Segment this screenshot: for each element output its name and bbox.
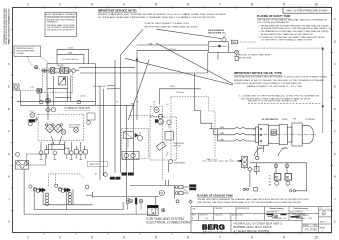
svg-text:A: A <box>253 128 255 131</box>
svg-text:ITEM REF: ITEM REF <box>215 208 223 210</box>
svg-text:F1-JT381: F1-JT381 <box>305 227 317 231</box>
svg-text:F: F <box>8 130 10 134</box>
svg-text:LF: LF <box>153 101 156 103</box>
svg-text:ANOT-T-XX A: ANOT-T-XX A <box>232 214 243 217</box>
svg-text:GXM-SPEC 1: GXM-SPEC 1 <box>296 218 306 220</box>
svg-text:2 * ELECTRICAL PUMPS: 2 * ELECTRICAL PUMPS <box>234 229 269 233</box>
svg-text:HYDRAULIC TANK UNIT: HYDRAULIC TANK UNIT <box>65 107 91 110</box>
svg-text:STEEL HARDENS ON THE OIL DISTR: STEEL HARDENS ON THE OIL DISTRIBUTOR UNI… <box>47 28 76 31</box>
svg-text:OIL LEVEL SWITCH: OIL LEVEL SWITCH <box>62 59 79 61</box>
svg-text:1. CONNECTED TO THE POSITIONED: 1. CONNECTED TO THE POSITIONED ACC LEVEL… <box>239 94 319 97</box>
svg-text:PLACING OF LEAKAGE TANK: PLACING OF LEAKAGE TANK <box>197 195 233 198</box>
svg-text:REINSTALL T. A: REINSTALL T. A <box>274 217 287 220</box>
svg-text:N/A: N/A <box>193 207 197 210</box>
svg-text:SHEET: SHEET <box>320 228 326 230</box>
svg-text:PLACING OF SAFETY TANK: PLACING OF SAFETY TANK <box>257 15 291 18</box>
svg-text:G: G <box>8 152 10 156</box>
svg-text:REV: REV <box>192 215 196 217</box>
svg-text:BN: BN <box>269 182 272 184</box>
svg-text:PUMP: PUMP <box>282 119 288 121</box>
svg-text:1: 1 <box>322 231 323 233</box>
svg-text:PUMPS MUST BE AVOIDED THE HYDR: PUMPS MUST BE AVOIDED THE HYDRAULIC SYST… <box>234 82 303 85</box>
svg-text:K: K <box>8 220 10 224</box>
svg-text:1: 1 <box>27 236 29 240</box>
svg-text:T/J: T/J <box>320 208 322 210</box>
svg-text:+ 10 BAR: + 10 BAR <box>16 52 25 55</box>
svg-text:DWG-NO X: DWG-NO X <box>215 215 225 217</box>
svg-text:DESIGNED BY: DESIGNED BY <box>266 212 278 214</box>
svg-text:4: 4 <box>123 236 125 240</box>
svg-text:LF: LF <box>116 101 119 103</box>
svg-text:MM Zone: MM Zone <box>177 92 185 94</box>
svg-text:IMPORTANT NOTICE ON OIL TYPE: IMPORTANT NOTICE ON OIL TYPE <box>234 71 282 75</box>
svg-text:J: J <box>326 221 327 223</box>
svg-text:6: 6 <box>187 3 189 7</box>
svg-text:10: 10 <box>314 3 318 7</box>
svg-text:MODIFICATION: MODIFICATION <box>237 207 250 210</box>
svg-text:LF: LF <box>154 104 157 106</box>
svg-text:86/T3: 86/T3 <box>320 221 324 223</box>
svg-text:AIR ELIMINATION: AIR ELIMINATION <box>208 29 225 32</box>
svg-text:P/TL: P/TL <box>30 87 34 89</box>
svg-text:AT A HIGHER LEVEL THAN THE OIL: AT A HIGHER LEVEL THAN THE OIL DISTRIBUT… <box>261 33 313 36</box>
svg-text:5: 5 <box>155 236 157 240</box>
svg-text:BERG: BERG <box>202 222 225 231</box>
svg-text:M: M <box>161 191 163 195</box>
svg-text:E: E <box>334 107 336 111</box>
svg-text:THE INSTALLATION SYSTEM IS FAC: THE INSTALLATION SYSTEM IS FACTORY FLUSH… <box>234 76 327 79</box>
svg-text:YE: YE <box>269 176 271 178</box>
svg-text:IMPORTANT SERVICE NOTE:: IMPORTANT SERVICE NOTE: <box>98 8 137 12</box>
svg-text:WHEN CHANGING THE OFFLINE FILT: WHEN CHANGING THE OFFLINE FILTER ELEMENT… <box>98 13 227 16</box>
svg-text:8: 8 <box>251 236 253 240</box>
svg-text:MARINE HYDRAULIC OIL WITH HIGH: MARINE HYDRAULIC OIL WITH HIGH VI, ~ VG … <box>247 85 303 88</box>
svg-text:OIL DISTRIBUTOR: OIL DISTRIBUTOR <box>262 119 279 121</box>
svg-text:IS OPEN AND REMOVAL PRESSURE C: IS OPEN AND REMOVAL PRESSURE CONTAINED B… <box>98 16 216 19</box>
svg-text:10: 10 <box>314 236 318 240</box>
svg-text:CYLINDER: CYLINDER <box>305 119 315 121</box>
svg-text:OIL LEVEL SW: OIL LEVEL SW <box>93 86 106 88</box>
svg-text:SO THE PIPE TO THE HYDRAULIC T: SO THE PIPE TO THE HYDRAULIC TANK IS LEV… <box>261 39 314 42</box>
svg-text:RUBBER SEALS IN THE SYSTEM AND: RUBBER SEALS IN THE SYSTEM AND THE DESIG… <box>234 79 324 82</box>
svg-text:D: D <box>334 85 336 89</box>
svg-text:A: A <box>334 17 336 21</box>
svg-text:3: 3 <box>91 236 93 240</box>
svg-text:STAR BLEED: STAR BLEED <box>174 162 186 165</box>
svg-text:THE AIR VENTILATED DRAINAGE TH: THE AIR VENTILATED DRAINAGE THE LEAKAGE … <box>197 198 310 201</box>
svg-text:H: H <box>334 175 336 179</box>
svg-text:WH: WH <box>269 185 273 187</box>
svg-text:Technical drawing: Technical drawing <box>294 208 309 210</box>
svg-text:THE PLACING OF THE GRAVITY TAN: THE PLACING OF THE GRAVITY TANK SHALL TA… <box>257 19 327 22</box>
svg-text:8: 8 <box>251 3 253 7</box>
svg-text:1. THE AIR BLEED AND INTERNAL: 1. THE AIR BLEED AND INTERNAL PRESSURE T… <box>259 24 329 27</box>
svg-text:4: 4 <box>123 3 125 7</box>
svg-text:MIN LEVEL OF GRAVITY TANK UNDE: MIN LEVEL OF GRAVITY TANK UNDER <box>238 54 271 57</box>
svg-text:2. THE DEAERATION SYSTEM TANK: 2. THE DEAERATION SYSTEM TANK THE GRAVIT… <box>259 30 329 33</box>
svg-text:C: C <box>334 62 336 66</box>
svg-text:MAX. SYSTEM PRESSURE 50 BAR: MAX. SYSTEM PRESSURE 50 BAR <box>287 9 328 12</box>
svg-text:C: C <box>8 62 10 66</box>
svg-text:REG N.: REG N. <box>303 215 309 217</box>
svg-text:* ABS ONLY: * ABS ONLY <box>89 163 100 166</box>
svg-text:B: B <box>334 40 336 44</box>
svg-text:IC: IC <box>275 176 279 180</box>
svg-text:C2500: C2500 <box>80 96 85 98</box>
svg-text:J: J <box>8 197 10 201</box>
svg-text:M: M <box>155 108 158 112</box>
svg-text:B: B <box>253 135 255 137</box>
svg-text:Technical drawing: Technical drawing <box>269 208 284 210</box>
svg-text:C2500: C2500 <box>170 86 175 88</box>
svg-text:F: F <box>334 130 336 134</box>
svg-text:PROPULSION: PROPULSION <box>203 231 223 233</box>
svg-text:ELECTRICAL CONNECTIONS: ELECTRICAL CONNECTIONS <box>147 221 191 225</box>
svg-text:MIN LEVEL OF OIL DISTRIBUTOR R: MIN LEVEL OF OIL DISTRIBUTOR REF LINE MA… <box>248 100 298 103</box>
svg-text:7: 7 <box>219 236 221 240</box>
svg-text:DRN-NO X: DRN-NO X <box>200 215 209 217</box>
svg-text:VOL: VOL <box>205 218 208 220</box>
svg-text:FOLLOWING REQUIREMENTS:-: FOLLOWING REQUIREMENTS:- <box>257 22 290 24</box>
svg-text:TO AVOID THE POSSIBILITY OF AI: TO AVOID THE POSSIBILITY OF AIR-LOCKS <box>144 22 189 25</box>
svg-text:GN: GN <box>269 179 272 181</box>
svg-text:THE PIPE SHALL HAVE NO HORIZON: THE PIPE SHALL HAVE NO HORIZONTAL SECTIO… <box>144 26 199 29</box>
svg-text:6: 6 <box>187 236 189 240</box>
svg-text:VALVE (OPEN), Pos: VALVE (OPEN), Pos <box>208 32 226 35</box>
svg-text:TOM: TOM <box>308 218 312 220</box>
svg-text:OPERATION.: OPERATION. <box>47 21 59 24</box>
svg-text:LF: LF <box>167 104 170 106</box>
svg-text:5: 5 <box>155 3 157 7</box>
svg-text:J: J <box>334 197 336 201</box>
svg-text:MS: MS <box>293 119 297 121</box>
svg-text:SWITCH: SWITCH <box>173 146 181 148</box>
svg-text:9: 9 <box>283 236 285 240</box>
svg-text:A: A <box>192 217 194 220</box>
svg-text:IC: IC <box>286 176 290 180</box>
svg-text:K: K <box>334 220 336 224</box>
svg-text:MAX LIST/TRIM: MAX LIST/TRIM <box>238 56 252 59</box>
svg-text:OR USED FOR MANUFACTURING. BER: OR USED FOR MANUFACTURING. BERG AB 2007 <box>7 8 10 45</box>
svg-text:D: D <box>8 85 10 89</box>
svg-text:7: 7 <box>219 3 221 7</box>
svg-text:3: 3 <box>91 3 93 7</box>
svg-text:E: E <box>8 107 10 111</box>
svg-text:G: G <box>334 152 336 156</box>
svg-text:NOTE: EMERGENCY OPERATION: NOTE: EMERGENCY OPERATION <box>45 13 77 16</box>
svg-text:M: M <box>95 174 97 176</box>
svg-text:H: H <box>8 175 10 179</box>
svg-text:3. CONNECTED SYSTEM TANK THE G: 3. CONNECTED SYSTEM TANK THE GRAVITY TAN… <box>259 36 325 39</box>
svg-text:1: 1 <box>328 208 329 210</box>
svg-text:9: 9 <box>283 3 285 7</box>
svg-text:2: 2 <box>59 3 61 7</box>
svg-text:2: 2 <box>59 236 61 240</box>
svg-text:1: 1 <box>27 3 29 7</box>
svg-text:AT A SUFFICIENT HEIGHT (4- 6 M: AT A SUFFICIENT HEIGHT (4- 6 METER) ABOV… <box>261 27 332 30</box>
svg-text:48: 48 <box>151 210 154 212</box>
svg-text:THE VENTED THE PIPES LEAD PIPE: THE VENTED THE PIPES LEAD PIPES SHALL FO… <box>197 201 301 204</box>
